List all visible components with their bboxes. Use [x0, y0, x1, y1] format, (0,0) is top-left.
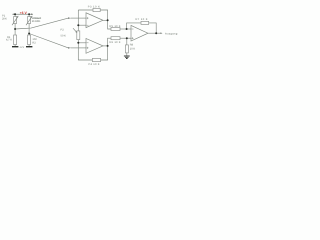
ground -6V bar right [26, 46, 32, 48]
op-amp U2 minus [87, 42, 89, 44]
resistor R2 body [28, 35, 31, 45]
svg-text:20 K: 20 K [2, 18, 7, 21]
op-amp U1 minus [87, 24, 89, 26]
svg-text:P4 10 K: P4 10 K [89, 63, 100, 66]
potentiometer P4 loop [78, 46, 107, 60]
node +6V right arrow [31, 13, 33, 15]
wire U2 output [103, 45, 108, 47]
wire U2 out up to R6 [108, 38, 111, 46]
wire sensor bottom [28, 24, 30, 36]
wire R8 to ground [126, 53, 128, 56]
resistor R7 loop [127, 23, 157, 33]
wire +6V rail [12, 13, 33, 15]
op-amp U2 plus [87, 47, 89, 49]
svg-text:Ausgang: Ausgang [165, 32, 178, 35]
potentiometer P3 body [93, 8, 100, 11]
op-amp U3 plus [132, 37, 134, 39]
potentiometer P4 body [92, 58, 100, 61]
junction dots [14, 13, 157, 47]
svg-text:20 - 100 K: 20 - 100 K [32, 20, 41, 23]
node output arrow [160, 32, 162, 34]
svg-text:P3 10 K: P3 10 K [88, 5, 100, 8]
svg-text:R5 10 K: R5 10 K [110, 25, 121, 28]
wire U2 inverting stub [78, 42, 86, 44]
wire left node to opamp U1 [15, 18, 68, 29]
op-amp U3 [131, 25, 148, 41]
potentiometer P1 body [14, 17, 17, 24]
svg-text:+6 V: +6 V [20, 11, 28, 15]
wire sensor top [28, 14, 30, 16]
resistor R5 body [111, 28, 120, 31]
resistor R8 body [125, 45, 128, 53]
wire R5 to U3 [120, 28, 131, 30]
ground -6V bar left [12, 46, 18, 48]
wire U1 output [103, 19, 108, 21]
wire R1 to -6V [14, 45, 16, 47]
potentiometer P3 loop [78, 10, 107, 20]
svg-text:4,7 K: 4,7 K [6, 38, 12, 41]
wire inverting bus vertical [77, 10, 79, 31]
wire right node to opamp U2 [29, 34, 68, 48]
wire R8 down [126, 38, 128, 45]
op-amp U1 [86, 13, 103, 28]
wire P1 bottom to node [14, 24, 16, 36]
resistor sensor arrow [26, 17, 32, 25]
wire R6 to U3 [120, 37, 131, 39]
svg-text:P2: P2 [61, 29, 65, 32]
svg-text:10 K: 10 K [130, 48, 136, 51]
supply -6V bars [12, 46, 32, 48]
wire P1 top [14, 14, 16, 16]
svg-text:R2: R2 [32, 41, 36, 44]
ground [124, 56, 130, 59]
labels [2, 5, 178, 66]
resistor R6 body [111, 37, 120, 40]
resistor R7 body [141, 21, 149, 24]
op-amp U2 [86, 39, 103, 54]
potentiometer P1 arrow [12, 17, 18, 25]
potentiometer P2 body [77, 31, 80, 40]
resistor Widerstand sensor body [28, 17, 31, 24]
svg-text:R7 10 K: R7 10 K [136, 18, 148, 21]
node +6V left arrow [12, 13, 14, 15]
resistor R1 body [14, 35, 17, 45]
potentiometer P2 wiper arrow [73, 28, 76, 32]
wire U1 inverting stub [78, 24, 86, 26]
op-amp U1 plus [87, 17, 89, 19]
wire R2 to -6V [28, 45, 30, 47]
svg-text:R6 10 K: R6 10 K [110, 41, 121, 44]
wire U3 output [148, 32, 162, 34]
svg-text:R8: R8 [130, 43, 134, 46]
svg-text:50 K: 50 K [61, 34, 67, 37]
wire U1 out down to R5 [108, 20, 111, 29]
svg-text:-6 V: -6 V [19, 46, 24, 49]
op-amp U3 minus [132, 28, 134, 30]
